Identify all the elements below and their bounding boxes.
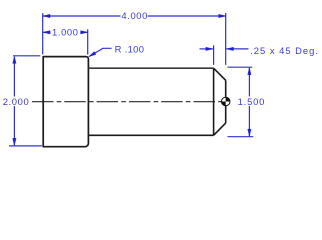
- dimension 2.000 top arrowhead: [13, 56, 16, 63]
- bottom chamfer diagonal: [214, 123, 226, 135]
- svg-text:1.500: 1.500: [238, 96, 265, 107]
- svg-text:4.000: 4.000: [121, 10, 148, 21]
- chamfer dimension left arrow line: [200, 48, 213, 50]
- centerline: [32, 101, 226, 103]
- leader R .100 arrowhead: [89, 52, 96, 57]
- extension line head right: [87, 29, 89, 54]
- chamfer dimension right arrowhead: [226, 47, 233, 50]
- part shaft top edge: [88, 67, 213, 69]
- dimension 1.500 top arrowhead: [248, 68, 251, 75]
- dimension 2.000 top extension line: [13, 55, 40, 57]
- dimension 1.500 bottom arrowhead: [248, 129, 251, 136]
- top chamfer diagonal: [214, 68, 226, 80]
- dimension 4.000 line: [43, 15, 226, 17]
- dimension 1.500 bottom extension line: [228, 136, 254, 138]
- part head outline: [43, 57, 88, 147]
- dimension 2.000 bottom arrowhead: [13, 138, 16, 145]
- dimension 1.500 line: [248, 68, 250, 136]
- leader R .100: [89, 48, 112, 56]
- dimension 4.000 right arrowhead: [219, 14, 226, 17]
- chamfer dimension right arrow line: [226, 48, 248, 50]
- dimension 1.000 line: [43, 31, 88, 33]
- chamfer start edge: [213, 68, 215, 135]
- extension line part right end: [225, 13, 227, 65]
- extension line head left: [42, 13, 44, 54]
- dimension 1.000 left arrowhead: [43, 31, 50, 34]
- shaft right end edge: [225, 80, 227, 123]
- dimension 4.000 left arrowhead: [43, 14, 50, 17]
- chamfer dimension left arrowhead: [206, 47, 213, 50]
- part shaft bottom edge: [88, 134, 213, 136]
- dimension 2.000 line: [13, 57, 15, 145]
- svg-text:1.000: 1.000: [52, 27, 79, 38]
- extension line chamfer start: [213, 45, 215, 65]
- dimension 1.500 top extension line: [228, 66, 253, 68]
- svg-text:.25 x 45 Deg.: .25 x 45 Deg.: [250, 45, 319, 56]
- center of mass symbol: [221, 97, 230, 106]
- svg-text:R .100: R .100: [115, 43, 145, 54]
- dimension 2.000 bottom extension line: [9, 145, 42, 147]
- svg-text:2.000: 2.000: [3, 96, 30, 107]
- dimension 1.000 right arrowhead: [81, 31, 88, 34]
